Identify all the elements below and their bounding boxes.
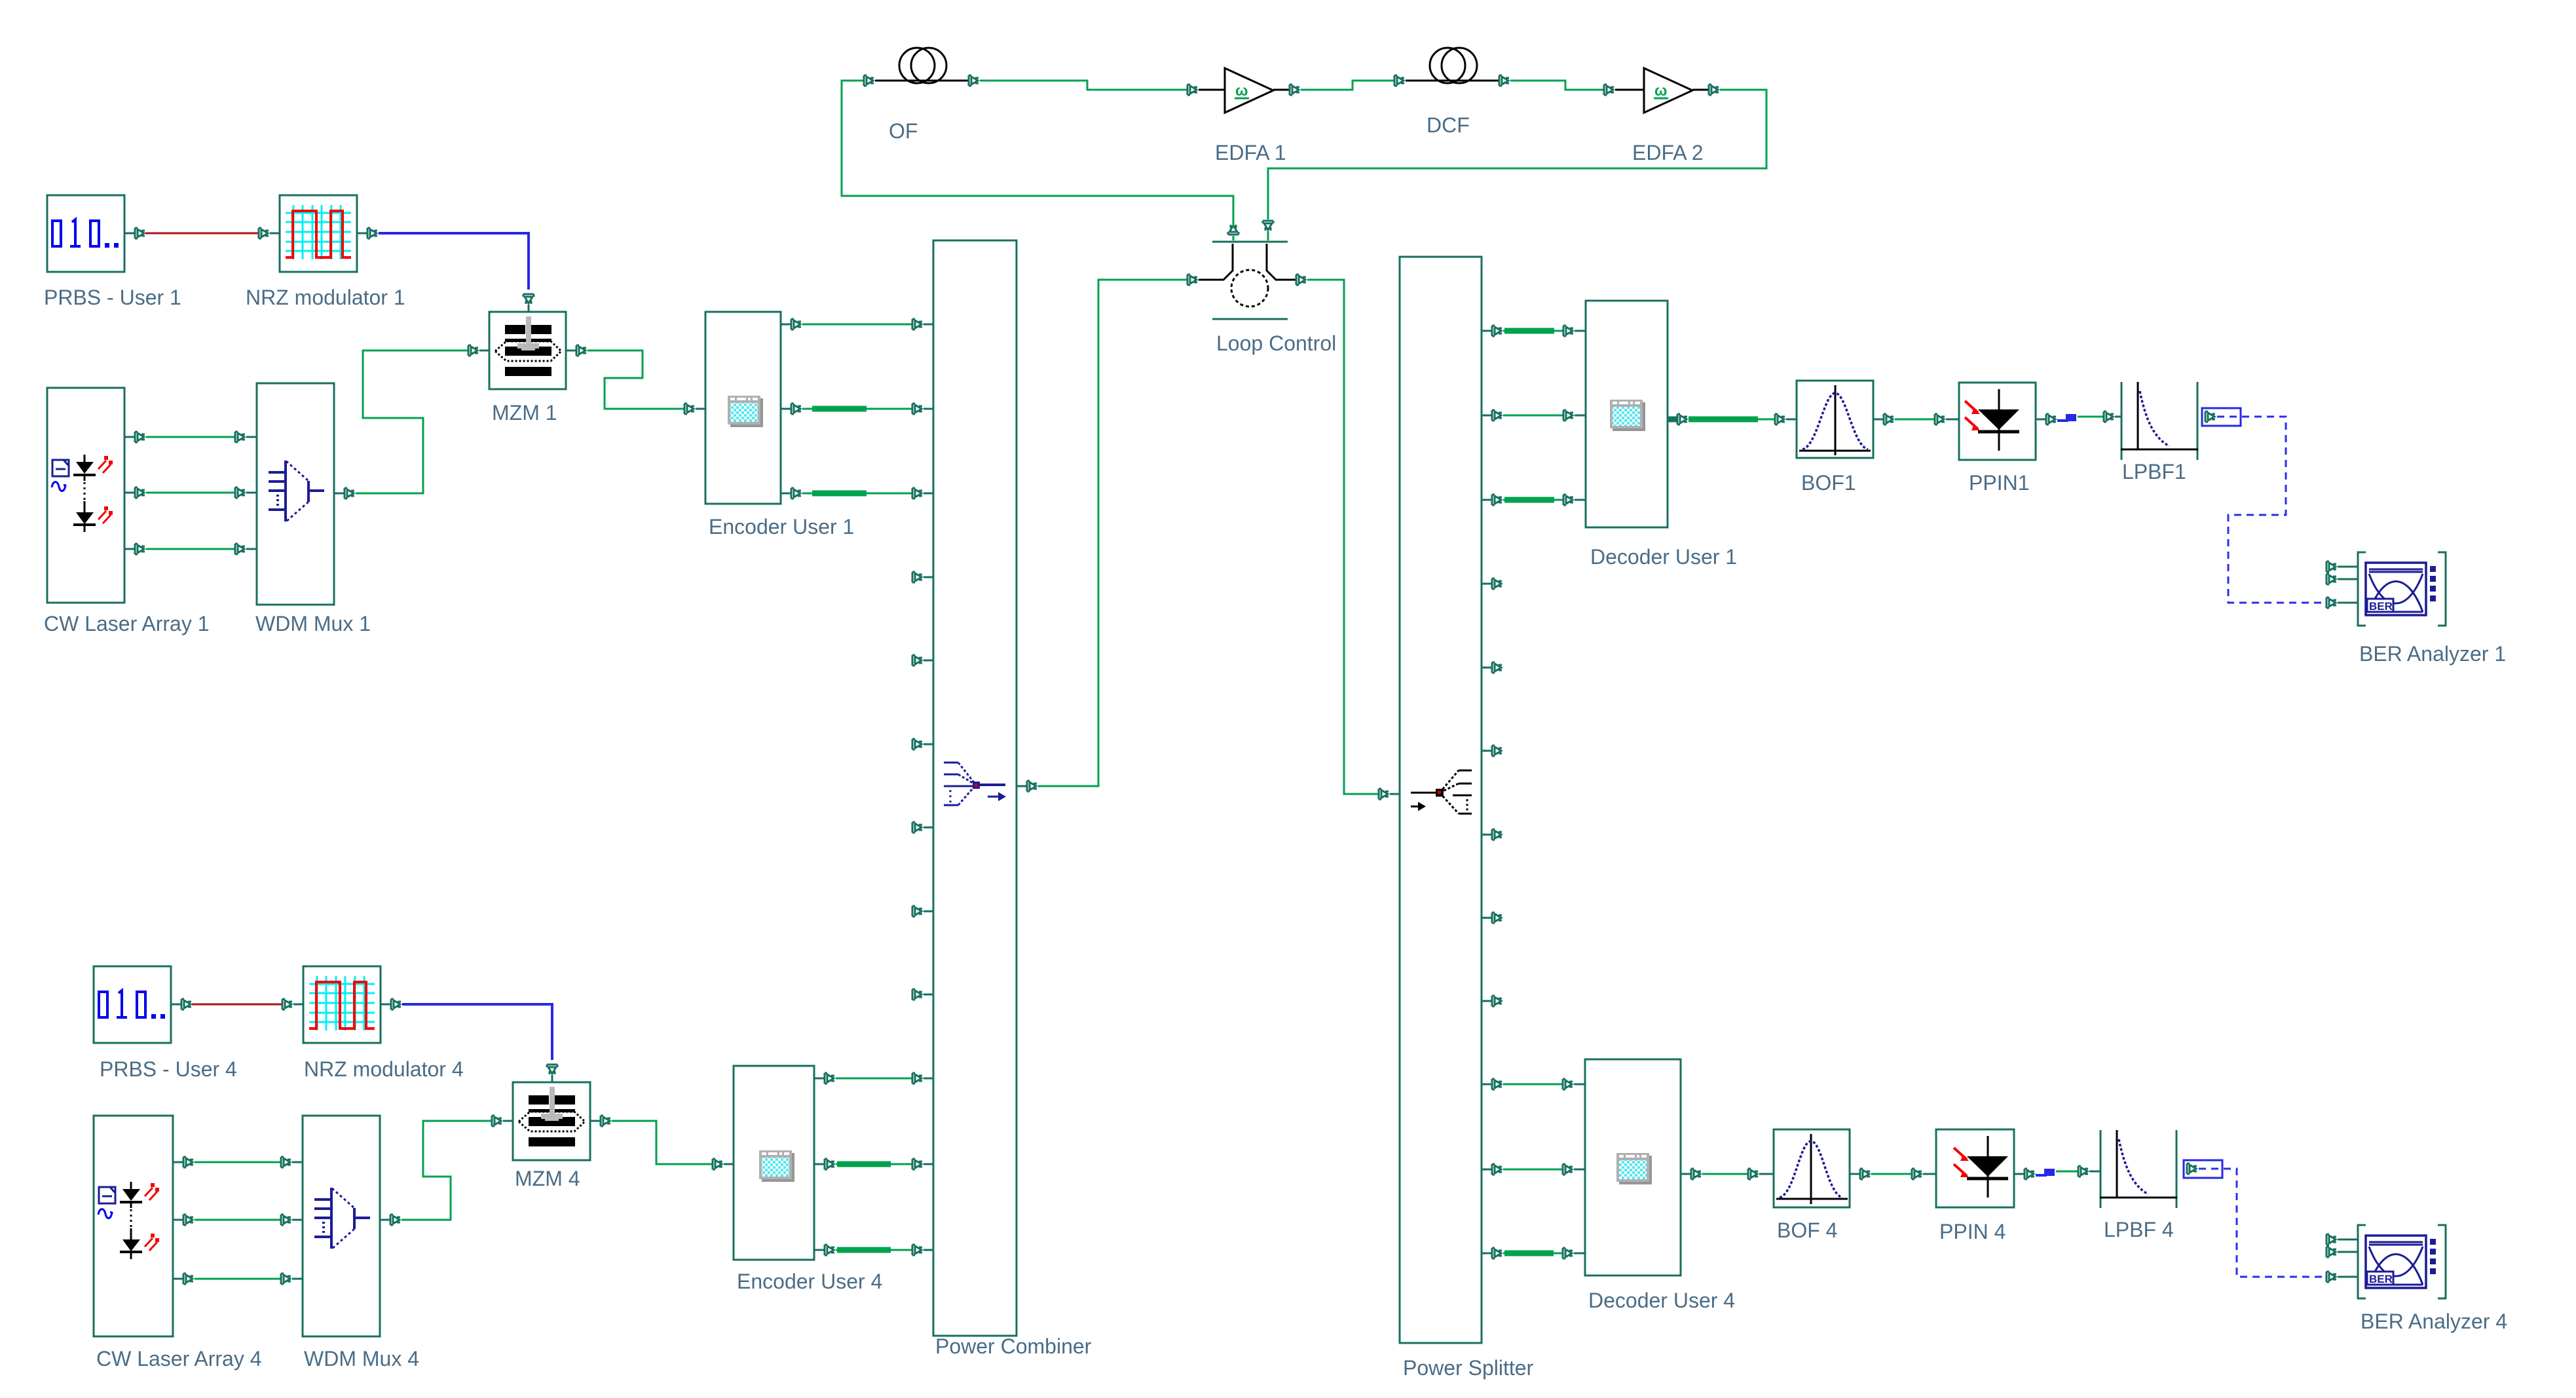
output port of Decoder User 4 xyxy=(1681,1169,1701,1179)
PRBS generator PRBS - User 1 xyxy=(44,195,181,309)
wire Decoder User 4 to BOF 4 xyxy=(1702,1173,1747,1175)
svg-text:ω: ω xyxy=(1235,82,1248,99)
wire NRZ4 to MZM4 (blue electrical) xyxy=(402,1004,552,1060)
left input port of Loop Control xyxy=(1187,274,1197,285)
output port of EDFA 1 xyxy=(1290,85,1299,95)
OF (optical fiber coil) xyxy=(875,48,968,143)
input port of LPBF1 xyxy=(2104,411,2121,422)
svg-text:Decoder User 4: Decoder User 4 xyxy=(1588,1289,1735,1312)
wire Power Combiner to Loop Control input xyxy=(1038,280,1187,786)
svg-text:CW Laser Array 4: CW Laser Array 4 xyxy=(96,1347,262,1370)
wire BOF1 to PPIN1 xyxy=(1895,419,1934,421)
svg-text:Encoder User 1: Encoder User 1 xyxy=(709,515,854,538)
input port of Encoder User 1 xyxy=(684,404,705,414)
svg-text:PRBS - User 4: PRBS - User 4 xyxy=(100,1057,237,1081)
svg-text:WDM Mux 1: WDM Mux 1 xyxy=(255,612,371,635)
wire Loop Control up to OF (recirculating loop start) xyxy=(842,81,1233,226)
output ports of Power Splitter (right edge) xyxy=(1482,326,1502,1258)
wire Encoder User 4 out1 to Power Combiner xyxy=(836,1078,912,1080)
CW Laser Array 4 xyxy=(94,1116,262,1370)
MZM 1 (Mach-Zehnder modulator) xyxy=(489,312,566,425)
DCF (dispersion compensating fiber coil) xyxy=(1406,48,1499,137)
input ports of Power Combiner (left edge) xyxy=(912,319,933,1255)
wire OF to EDFA 1 xyxy=(980,81,1187,90)
input ports of BER Analyzer 1 xyxy=(2326,561,2358,608)
svg-text:Encoder User 4: Encoder User 4 xyxy=(737,1270,882,1293)
wire Loop Control to Power Splitter xyxy=(1307,280,1378,794)
svg-text:BER Analyzer 1: BER Analyzer 1 xyxy=(2359,642,2506,666)
wire WDM Mux 4 to MZM 4 xyxy=(401,1121,491,1220)
Loop Control xyxy=(1199,242,1336,355)
input ports of WDM Mux 1 xyxy=(235,432,257,554)
output port of Power Combiner xyxy=(1017,781,1037,791)
wire Encoder User 1 out2 to Power Combiner (multichannel) xyxy=(802,408,912,410)
output connector of LPBF 4 (blue) xyxy=(2184,1160,2222,1178)
output ports of CW Laser Array 4 xyxy=(173,1157,193,1284)
svg-text:Decoder User 1: Decoder User 1 xyxy=(1590,545,1737,569)
input port of LPBF 4 xyxy=(2078,1166,2100,1177)
output ports of Encoder User 1 xyxy=(781,319,801,499)
wire Encoder User 4 out3 to Power Combiner (multichannel) xyxy=(836,1249,912,1251)
output port of PPIN1 xyxy=(2036,414,2056,425)
output port of EDFA 2 xyxy=(1709,85,1719,95)
output port of BOF1 xyxy=(1873,414,1894,425)
BOF1 (Bessel optical filter) xyxy=(1797,381,1873,495)
wire NRZ1 to MZM1 (blue electrical) xyxy=(379,233,529,290)
wire Power Splitter to Decoder User 1 in3 (multichannel) xyxy=(1503,499,1563,501)
svg-text:PPIN 4: PPIN 4 xyxy=(1939,1220,2006,1243)
Decoder User 4 xyxy=(1585,1059,1735,1312)
LPBF 4 (low pass Bessel filter) xyxy=(2100,1130,2177,1241)
wire Encoder User 1 out3 to Power Combiner (multichannel) xyxy=(802,493,912,495)
wire EDFA 1 to DCF xyxy=(1301,81,1394,90)
output port of MZM 1 xyxy=(566,345,586,356)
wire BOF 4 to PPIN 4 xyxy=(1871,1173,1911,1175)
right output port of Loop Control xyxy=(1288,274,1306,285)
wire PPIN 4 to LPBF 4 (blue electrical with step) xyxy=(2036,1169,2078,1176)
wires CW Laser Array 4 to WDM Mux 4 xyxy=(195,1162,280,1279)
left input port of MZM 1 xyxy=(468,345,489,356)
wire Power Splitter to Decoder User 4 in3 (multichannel) xyxy=(1503,1253,1562,1255)
wire Power Splitter to Decoder User 4 in2 xyxy=(1503,1169,1562,1171)
svg-text:LPBF 4: LPBF 4 xyxy=(2104,1218,2174,1241)
svg-text:MZM 1: MZM 1 xyxy=(492,401,557,425)
top input port of MZM 4 xyxy=(547,1065,557,1082)
svg-text:PPIN1: PPIN1 xyxy=(1969,471,2029,495)
output port of WDM Mux 4 xyxy=(380,1215,400,1225)
svg-text:BER Analyzer 4: BER Analyzer 4 xyxy=(2361,1310,2507,1333)
output port of Decoder User 1 (multichannel) xyxy=(1668,414,1687,425)
svg-text:LPBF1: LPBF1 xyxy=(2122,460,2186,483)
input port of NRZ modulator 1 xyxy=(259,228,280,238)
PPIN1 (photodetector PIN) xyxy=(1959,383,2036,495)
dashed wire LPBF1 to BER Analyzer 1 xyxy=(2217,417,2326,603)
output port of OF xyxy=(969,75,979,86)
wire Decoder User 1 to BOF1 (multichannel thick) xyxy=(1689,417,1774,423)
svg-text:NRZ modulator 1: NRZ modulator 1 xyxy=(246,286,405,309)
wire PPIN1 to LPBF1 (blue electrical with step) xyxy=(2057,414,2103,421)
output port of NRZ modulator 4 xyxy=(381,999,401,1010)
input port of EDFA 2 xyxy=(1604,85,1614,95)
output connector of LPBF1 (blue) xyxy=(2202,408,2241,426)
top-right input port of Loop Control (from loop, down arrow) xyxy=(1263,221,1273,240)
input ports of BER Analyzer 4 xyxy=(2326,1234,2358,1282)
svg-text:DCF: DCF xyxy=(1427,113,1470,137)
input port of DCF xyxy=(1394,75,1404,86)
wire MZM 1 to Encoder User 1 xyxy=(588,350,684,409)
Power Combiner xyxy=(933,240,1092,1358)
PPIN 4 (photodetector PIN) xyxy=(1936,1129,2014,1243)
NRZ modulator 1 xyxy=(246,195,405,309)
WDM Mux 1 xyxy=(255,383,371,635)
svg-text:PRBS - User 1: PRBS - User 1 xyxy=(44,286,181,309)
EDFA 2 (optical amplifier) xyxy=(1615,68,1708,164)
MZM 4 (Mach-Zehnder modulator) xyxy=(513,1082,590,1190)
svg-text:OF: OF xyxy=(889,119,918,143)
wire PRBS1 to NRZ1 (electrical, dark red) xyxy=(145,233,258,235)
input port of Power Splitter xyxy=(1379,789,1400,799)
output port of BOF 4 xyxy=(1850,1169,1870,1179)
output port of NRZ modulator 1 xyxy=(357,228,377,238)
wire Encoder User 1 out1 to Power Combiner xyxy=(802,324,912,326)
input port of OF xyxy=(864,75,874,86)
BOF 4 (Bessel optical filter) xyxy=(1774,1129,1850,1242)
wire Encoder User 4 out2 to Power Combiner (multichannel) xyxy=(836,1163,912,1165)
wire Power Splitter to Decoder User 1 in2 xyxy=(1503,415,1563,417)
input port of PPIN1 xyxy=(1935,414,1959,425)
output port of PRBS - User 1 xyxy=(124,228,145,238)
svg-text:BER: BER xyxy=(2369,1273,2393,1285)
wire DCF to EDFA 2 xyxy=(1510,81,1603,90)
output port of MZM 4 xyxy=(590,1116,610,1126)
top-left output port of Loop Control (to loop, up arrow) xyxy=(1228,225,1239,240)
svg-text:BER: BER xyxy=(2369,600,2393,613)
svg-text:EDFA 1: EDFA 1 xyxy=(1215,141,1286,164)
svg-text:BOF1: BOF1 xyxy=(1801,471,1856,495)
Encoder User 1 xyxy=(705,312,854,538)
svg-text:CW Laser Array 1: CW Laser Array 1 xyxy=(44,612,210,635)
CW Laser Array 1 xyxy=(44,388,210,635)
BER Analyzer 4 xyxy=(2358,1225,2507,1333)
wire EDFA 2 back to Loop Control (loop return) xyxy=(1268,90,1766,219)
input port of BOF 4 xyxy=(1748,1169,1774,1179)
wires CW Laser Array 1 to WDM Mux 1 xyxy=(146,437,234,549)
WDM Mux 4 xyxy=(303,1116,419,1370)
output port of WDM Mux 1 xyxy=(334,488,354,499)
input port of PPIN 4 xyxy=(1912,1169,1936,1179)
output ports of CW Laser Array 1 xyxy=(124,432,145,554)
svg-text:MZM 4: MZM 4 xyxy=(515,1167,580,1190)
output port of DCF xyxy=(1499,75,1509,86)
wire Power Splitter to Decoder User 4 in1 xyxy=(1503,1084,1562,1086)
NRZ modulator 4 xyxy=(303,966,464,1081)
wire MZM 4 to Encoder User 4 xyxy=(612,1121,712,1164)
svg-text:ω: ω xyxy=(1654,82,1667,99)
svg-text:Loop Control: Loop Control xyxy=(1216,331,1336,355)
output port of PPIN 4 xyxy=(2014,1169,2034,1179)
svg-text:Power Combiner: Power Combiner xyxy=(935,1334,1092,1358)
svg-text:EDFA 2: EDFA 2 xyxy=(1632,141,1704,164)
input ports of Decoder User 4 xyxy=(1563,1079,1585,1258)
input ports of WDM Mux 4 xyxy=(281,1157,303,1284)
input port of Encoder User 4 xyxy=(713,1159,734,1169)
input port of EDFA 1 xyxy=(1187,85,1197,95)
wire Power Splitter to Decoder User 1 in1 (multichannel) xyxy=(1503,330,1563,332)
output port of PRBS - User 4 xyxy=(171,999,191,1010)
svg-text:NRZ modulator 4: NRZ modulator 4 xyxy=(304,1057,464,1081)
svg-text:Power Splitter: Power Splitter xyxy=(1403,1356,1534,1380)
input port of NRZ modulator 4 xyxy=(282,999,303,1010)
wire PRBS4 to NRZ4 (electrical, dark red) xyxy=(192,1004,282,1006)
Encoder User 4 xyxy=(734,1066,882,1293)
Power Splitter xyxy=(1400,257,1534,1380)
Decoder User 1 xyxy=(1586,301,1737,569)
top input port of MZM 1 xyxy=(523,294,534,312)
EDFA 1 (optical amplifier) xyxy=(1199,68,1289,164)
left input port of MZM 4 xyxy=(492,1116,513,1126)
svg-text:BOF 4: BOF 4 xyxy=(1777,1219,1837,1242)
dashed wire LPBF 4 to BER Analyzer 4 xyxy=(2199,1169,2326,1277)
svg-text:WDM Mux 4: WDM Mux 4 xyxy=(304,1347,419,1370)
BER Analyzer 1 xyxy=(2358,552,2506,666)
input port of BOF1 xyxy=(1775,414,1797,425)
PRBS generator PRBS - User 4 xyxy=(94,966,237,1081)
LPBF1 (low pass Bessel filter) xyxy=(2121,382,2198,483)
output ports of Encoder User 4 xyxy=(814,1073,834,1255)
input ports of Decoder User 1 xyxy=(1563,326,1586,505)
wire WDM Mux 1 to MZM 1 xyxy=(356,350,468,493)
